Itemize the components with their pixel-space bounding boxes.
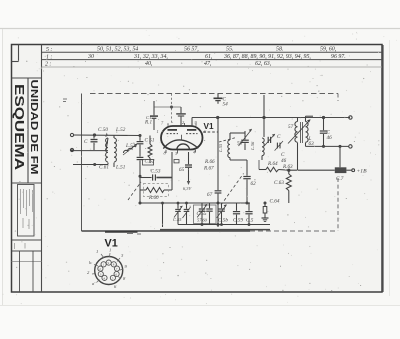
svg-text:C.61: C.61 xyxy=(99,165,109,171)
svg-text:C.50: C.50 xyxy=(98,127,108,133)
svg-text:5 :: 5 : xyxy=(46,47,52,53)
svg-text:C: C xyxy=(84,139,88,145)
svg-text:40,: 40, xyxy=(145,61,153,67)
svg-text:C.55: C.55 xyxy=(197,211,207,217)
svg-text:R.67: R.67 xyxy=(203,166,214,172)
svg-text:30: 30 xyxy=(87,54,94,60)
svg-text:C: C xyxy=(277,134,281,140)
svg-text:C.64: C.64 xyxy=(270,198,280,205)
svg-text:57: 57 xyxy=(288,124,294,130)
svg-text:2 :: 2 : xyxy=(45,62,51,68)
svg-text:55.: 55. xyxy=(226,47,233,53)
svg-text:1: 1 xyxy=(96,249,98,254)
svg-text:56 57,: 56 57, xyxy=(184,47,199,53)
svg-text:1 :: 1 : xyxy=(46,54,52,60)
svg-text:63: 63 xyxy=(309,141,315,147)
svg-text:56: 56 xyxy=(237,141,243,147)
svg-text:R.1: R.1 xyxy=(144,120,152,126)
svg-text:R.60: R.60 xyxy=(148,195,159,201)
svg-text:R.64: R.64 xyxy=(267,160,278,167)
svg-text:46: 46 xyxy=(327,134,333,141)
svg-text:R.66: R.66 xyxy=(204,159,215,165)
svg-text:UNIDAD DE FM: UNIDAD DE FM xyxy=(28,80,39,175)
svg-text:96 97.: 96 97. xyxy=(331,54,346,60)
svg-text:36, 87, 88, 89, 90, 91, 92, 93: 36, 87, 88, 89, 90, 91, 92, 93, 94, 95, xyxy=(223,54,311,60)
svg-text:59, 60,: 59, 60, xyxy=(320,47,337,53)
svg-text:C.52: C.52 xyxy=(145,159,155,165)
svg-text:L.56: L.56 xyxy=(250,141,255,151)
svg-text:C.55: C.55 xyxy=(173,217,182,222)
svg-text:1: 1 xyxy=(109,248,111,253)
svg-text:C.5b: C.5b xyxy=(218,218,228,224)
svg-text:67: 67 xyxy=(207,192,213,198)
svg-text:C.59: C.59 xyxy=(233,218,243,224)
svg-text:58.: 58. xyxy=(276,47,283,53)
svg-text:R.63: R.63 xyxy=(282,164,293,170)
svg-text:k:: k: xyxy=(89,260,93,265)
svg-text:L.53: L.53 xyxy=(125,143,136,149)
svg-text:62: 62 xyxy=(251,181,257,187)
svg-text:C1: C1 xyxy=(146,115,151,120)
svg-text:C.5: C.5 xyxy=(246,218,254,224)
svg-text:L.55: L.55 xyxy=(218,143,223,153)
svg-text:+1B: +1B xyxy=(357,169,368,175)
svg-text:46: 46 xyxy=(281,157,287,164)
svg-text:31, 32, 33, 34,: 31, 32, 33, 34, xyxy=(133,54,168,60)
svg-text:1: 1 xyxy=(157,129,159,134)
svg-text:57.60: 57.60 xyxy=(197,218,208,223)
svg-text:61,: 61, xyxy=(205,54,213,60)
svg-text:54: 54 xyxy=(223,101,229,108)
svg-text:50, 51, 52, 53, 54: 50, 51, 52, 53, 54 xyxy=(97,47,138,53)
svg-text:62, 63,: 62, 63, xyxy=(255,61,272,67)
svg-text:65: 65 xyxy=(179,167,185,173)
svg-text:C 51: C 51 xyxy=(145,138,155,144)
svg-text:ESQUEMA: ESQUEMA xyxy=(12,84,27,171)
svg-text:C.53: C.53 xyxy=(151,169,161,175)
svg-text:C.7: C.7 xyxy=(336,176,344,182)
svg-text:L.51: L.51 xyxy=(115,165,126,171)
svg-text:47,: 47, xyxy=(204,61,212,67)
